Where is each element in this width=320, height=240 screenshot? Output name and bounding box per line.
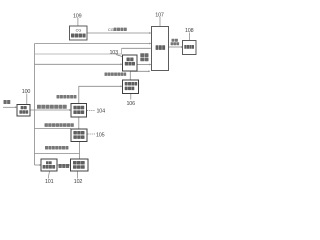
leader label 107 <box>159 17 161 26</box>
leader label 108 <box>189 33 191 41</box>
net label recognition data <box>37 105 67 109</box>
svg-text:108: 108 <box>185 28 194 34</box>
leader label 106 <box>130 94 132 100</box>
wire map line to synthesizer <box>130 71 149 80</box>
net label registered word table <box>45 146 68 150</box>
box U100 speech recognizer <box>17 105 30 117</box>
net label table reference <box>45 123 74 127</box>
wire box105 to box102 <box>79 142 81 160</box>
leader label 102 <box>77 171 79 179</box>
leader label 105 <box>88 133 96 135</box>
svg-text:100: 100 <box>22 89 31 95</box>
box U104 registered word table <box>71 104 87 118</box>
wire box104 to box105 <box>78 117 80 129</box>
box U109 CG renderer <box>70 26 88 40</box>
box U105 <box>71 129 87 142</box>
box U108 display <box>183 41 197 55</box>
wire branch jogging up to synthesizer <box>35 48 122 54</box>
svg-text:CG: CG <box>76 29 82 33</box>
svg-text:101: 101 <box>45 179 54 185</box>
net label audio input <box>4 100 11 104</box>
leader label 103 <box>116 55 122 57</box>
box U103 caption generator <box>123 55 138 71</box>
wire synthesizer to display <box>169 46 182 48</box>
wire table reference branch <box>35 128 72 130</box>
svg-text:104: 104 <box>97 109 106 115</box>
box U107 synthesizer <box>152 27 169 71</box>
net label CG data <box>108 28 127 32</box>
wire table branch <box>35 153 80 155</box>
box U102 word storage <box>71 159 89 171</box>
wire into dictionary box <box>35 164 40 166</box>
svg-text:CG: CG <box>108 28 114 32</box>
svg-text:106: 106 <box>127 101 136 107</box>
svg-text:102: 102 <box>74 179 83 185</box>
svg-text:109: 109 <box>73 13 82 19</box>
wire audio input arrow <box>3 106 15 108</box>
leader label 109 <box>77 18 79 26</box>
wire dictionary to box102 <box>57 164 69 166</box>
wire CG data line <box>87 32 150 34</box>
wire main vertical bus <box>34 44 36 166</box>
wire caption image to synthesizer <box>137 64 150 66</box>
leader label 100 <box>26 94 28 105</box>
wire box104 to decision box <box>79 86 121 103</box>
leader label 104 <box>87 110 95 112</box>
svg-text:107: 107 <box>155 13 164 19</box>
net label image data <box>171 39 179 46</box>
net label overlay position map <box>105 73 127 76</box>
net label registered word chip <box>57 95 77 99</box>
svg-text:103: 103 <box>110 50 119 56</box>
box U106 overlay position decision <box>123 80 139 94</box>
net label between dictionaries <box>59 164 70 168</box>
wire top branch to synthesizer <box>35 43 150 45</box>
wire recognition data line <box>30 109 70 111</box>
net label caption image <box>140 53 148 61</box>
leader label 101 <box>48 171 49 179</box>
svg-text:105: 105 <box>96 132 105 138</box>
wire branch to caption generator <box>35 63 121 65</box>
box U101 recognition dictionary <box>41 159 57 171</box>
